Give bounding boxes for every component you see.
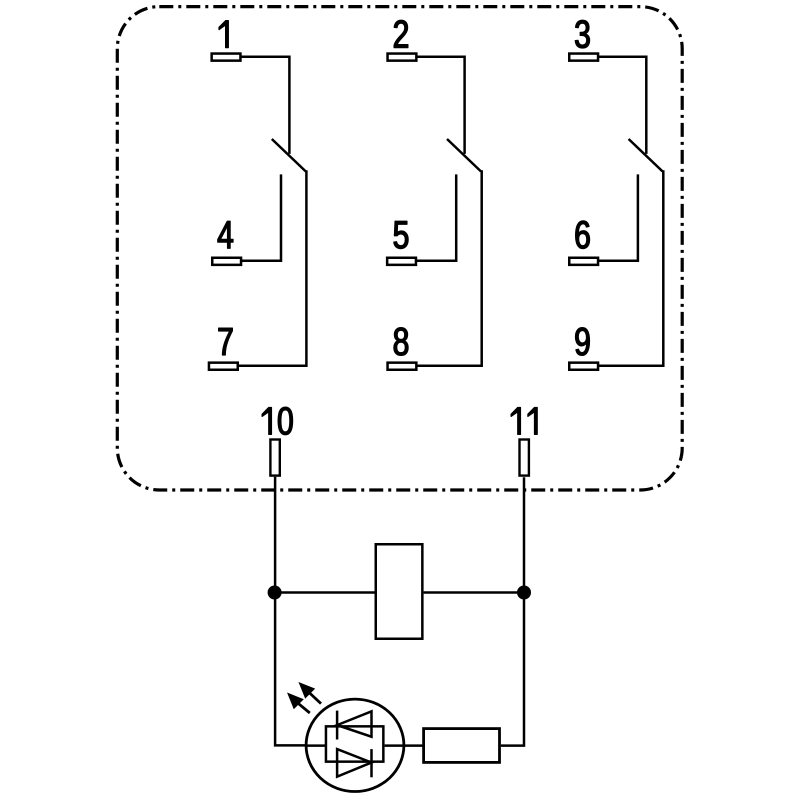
LED light arrow 1 shaft — [308, 692, 321, 704]
terminal 11 (coil pin) — [520, 440, 529, 476]
diode D2 cathode bar — [370, 749, 373, 777]
wire from node A to coil — [275, 591, 375, 594]
pole 3: wire from contact arm down to terminal 9 — [598, 170, 663, 366]
pole 2: label 8 — [394, 328, 408, 356]
node B (junction dot right) — [517, 586, 531, 600]
pole 2: wire from terminal 5 to fixed contact — [416, 174, 456, 260]
LED block rectangle — [326, 726, 383, 761]
pole 1: contact arm (diagonal) — [272, 139, 306, 171]
pole 3: wire from terminal 3 to contact pivot — [598, 57, 646, 154]
pole 1: label 4 — [218, 221, 233, 248]
wire from left into LED block — [306, 744, 325, 747]
pole 3: label 3 — [575, 20, 589, 48]
pole 2: terminal 8 — [388, 363, 417, 370]
label 11 — [511, 407, 537, 434]
pole 2: label 5 — [394, 221, 408, 248]
pole 3: contact arm (diagonal) — [629, 139, 663, 171]
pole 1: wire from terminal 1 to contact pivot — [240, 57, 289, 154]
enclosure border (relay case, dash-dot) — [117, 7, 682, 490]
pole 2: terminal 2 — [388, 54, 417, 61]
pole 1: terminal 1 — [212, 54, 241, 61]
pole 2: wire from contact arm down to terminal 8 — [416, 170, 481, 366]
LED light arrow 1 head — [300, 683, 315, 698]
LED light arrow 2 shaft — [297, 702, 310, 713]
pole 3: label 6 — [576, 221, 590, 249]
diode D1 cathode bar — [336, 711, 339, 740]
wire from terminal 10 down left side to LED branch — [275, 477, 307, 746]
pole 3: wire from terminal 6 to fixed contact — [598, 174, 638, 260]
terminal 10 (coil pin) — [270, 440, 279, 476]
wire from terminal 11 down right side to resistor — [501, 477, 524, 745]
LED light arrow 2 head — [288, 694, 303, 709]
pole 2: label 2 — [394, 20, 408, 47]
wire from coil to node B — [424, 591, 524, 594]
diode D2 triangle (pointing right) — [337, 749, 371, 777]
node A (junction dot left) — [268, 586, 282, 600]
pole 1: terminal 7 — [209, 363, 238, 370]
pole 1: wire from contact arm down to terminal 7 — [238, 170, 307, 366]
wire from LED block to resistor — [385, 744, 424, 747]
pole 2: contact arm (diagonal) — [447, 139, 481, 171]
label 10 — [262, 407, 292, 435]
diode D1 triangle (pointing left) — [337, 711, 371, 736]
pole 3: terminal 6 — [569, 258, 598, 265]
pole 3: terminal 9 — [569, 363, 598, 370]
pole 1: label 7 — [219, 328, 233, 355]
pole 1: label 1 — [219, 21, 228, 48]
LED indicator circle — [306, 699, 404, 791]
coil (relay coil rectangle) — [376, 544, 423, 639]
pole 2: wire from terminal 2 to contact pivot — [416, 57, 464, 154]
pole 1: terminal 4 — [212, 258, 241, 265]
pole 3: label 9 — [576, 328, 590, 356]
pole 3: terminal 3 — [569, 54, 598, 61]
pole 1: wire from terminal 4 to fixed contact — [241, 174, 281, 260]
pole 2: terminal 5 — [387, 258, 416, 265]
resistor R1 — [424, 729, 500, 763]
